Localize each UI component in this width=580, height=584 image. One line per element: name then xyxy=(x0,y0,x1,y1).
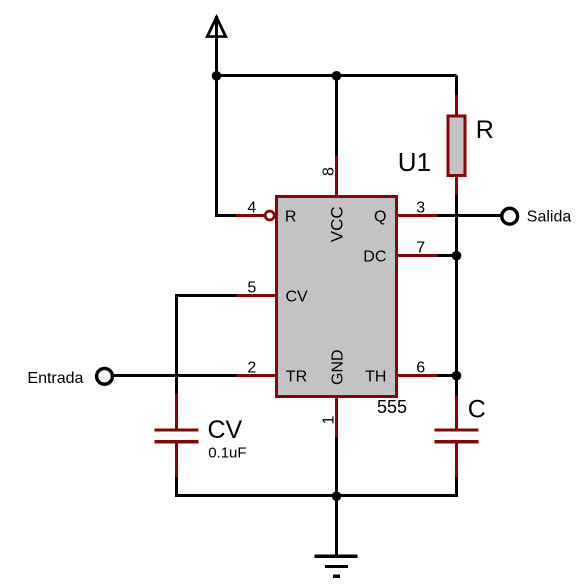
svg-text:Entrada: Entrada xyxy=(27,370,83,387)
svg-text:5: 5 xyxy=(247,280,256,297)
svg-text:TR: TR xyxy=(286,369,307,386)
svg-text:1: 1 xyxy=(321,416,338,425)
wire: capacitor C top pin (maroon) xyxy=(455,396,458,430)
svg-text:R: R xyxy=(285,209,297,226)
power symbol (VCC arrow) xyxy=(205,14,228,38)
svg-text:8: 8 xyxy=(321,167,338,176)
svg-text:GND: GND xyxy=(329,349,346,385)
svg-text:6: 6 xyxy=(416,360,425,377)
pin 4 inversion bubble xyxy=(265,211,274,220)
resistor R body xyxy=(448,116,465,176)
wire: TH to right rail xyxy=(438,374,457,377)
wire: pin 1 stub (maroon) xyxy=(335,397,338,439)
terminal: Entrada xyxy=(97,368,113,384)
svg-text:DC: DC xyxy=(363,248,386,265)
wire: pin 7 stub (maroon) xyxy=(397,254,438,257)
node: ground junction xyxy=(332,491,342,501)
wire: DC to right rail xyxy=(438,254,457,257)
svg-text:4: 4 xyxy=(247,200,256,217)
svg-text:Salida: Salida xyxy=(527,208,572,225)
ground symbol xyxy=(315,555,358,578)
node: TH junction xyxy=(452,371,462,381)
wire: capacitor CV bottom pin (maroon) xyxy=(175,444,178,478)
svg-text:R: R xyxy=(476,116,494,144)
wire: Entrada terminal to TR pin xyxy=(113,374,237,377)
svg-text:TH: TH xyxy=(365,368,386,385)
wire: pin 2 stub (maroon) xyxy=(236,374,277,377)
wire: arrow down to top rail xyxy=(215,16,218,77)
svg-text:C: C xyxy=(468,396,486,424)
node: junction top-left xyxy=(212,71,222,81)
capacitor C plates xyxy=(435,428,479,443)
svg-text:3: 3 xyxy=(416,200,425,217)
svg-text:2: 2 xyxy=(247,360,256,377)
wire: CV cap to bottom rail xyxy=(175,477,178,497)
node: junction top-VCC xyxy=(332,71,342,81)
svg-text:VCC: VCC xyxy=(327,206,346,242)
node: DC junction xyxy=(452,251,462,261)
svg-text:7: 7 xyxy=(416,240,425,257)
svg-text:Q: Q xyxy=(374,208,386,225)
svg-text:555: 555 xyxy=(377,397,407,417)
wire: pin 3 stub (maroon) xyxy=(397,214,438,217)
wire: pin 5 stub (maroon) xyxy=(236,294,277,297)
IC U1 555 body xyxy=(277,197,397,397)
svg-text:U1: U1 xyxy=(398,147,431,177)
wire: top rail xyxy=(217,74,457,77)
wire: left branch down xyxy=(217,76,238,216)
wire: right drop black middle xyxy=(455,195,458,397)
wire: Q pin to Salida terminal xyxy=(438,214,503,217)
capacitor CV plates xyxy=(155,428,199,443)
wire: resistor bottom pin (maroon) xyxy=(455,177,458,196)
wire: resistor top pin (maroon) xyxy=(455,95,458,115)
wire: pin 8 stub (maroon) xyxy=(335,156,338,197)
wire: capacitor CV top pin (maroon) xyxy=(175,394,178,430)
wire: right drop to bottom rail xyxy=(455,477,458,497)
svg-text:CV: CV xyxy=(208,416,243,444)
wire: bottom rail xyxy=(175,494,458,497)
svg-text:CV: CV xyxy=(286,289,309,306)
wire: CV branch xyxy=(177,296,237,395)
svg-text:0.1uF: 0.1uF xyxy=(208,445,246,462)
wire: stem to ground xyxy=(335,496,338,557)
wire: GND pin to bottom rail xyxy=(335,438,338,498)
terminal: Salida xyxy=(502,208,518,224)
wire: right drop black top xyxy=(455,76,458,97)
wire: pin 6 stub (maroon) xyxy=(397,374,438,377)
wire: capacitor C bottom pin (maroon) xyxy=(455,444,458,478)
wire: VCC drop black xyxy=(335,76,338,157)
wire: pin 4 stub (maroon) xyxy=(236,214,264,217)
